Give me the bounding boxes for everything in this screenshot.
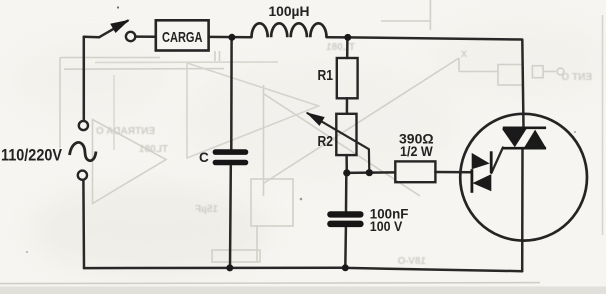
wire left rail top xyxy=(83,37,86,121)
faint vertical top right xyxy=(429,0,431,30)
svg-text:100 V: 100 V xyxy=(370,218,403,234)
svg-text:CARGA: CARGA xyxy=(162,29,203,46)
switch lever xyxy=(99,21,127,37)
faint box bottom center-left xyxy=(251,179,293,226)
switch arrowhead xyxy=(110,20,130,33)
R2 wiper arrowhead xyxy=(306,112,325,126)
faint line top-left long xyxy=(64,68,224,71)
svg-text:110/220V: 110/220V xyxy=(1,147,62,165)
faint vertical below CARGA xyxy=(214,51,216,61)
svg-text:R1: R1 xyxy=(318,67,334,84)
resistor 390 ohm xyxy=(395,161,435,182)
wire switch stub xyxy=(84,36,99,39)
wire 390 to diac xyxy=(435,171,470,174)
load box CARGA xyxy=(156,20,209,50)
svg-text:X: X xyxy=(461,49,467,59)
svg-text:ENTRADA O: ENTRADA O xyxy=(96,126,155,137)
wire 100nF lower xyxy=(344,227,347,268)
svg-text:ENT O: ENT O xyxy=(561,72,592,83)
svg-text:15µF: 15µF xyxy=(195,204,218,215)
diac D1 lower triangle xyxy=(473,174,492,191)
svg-text:C: C xyxy=(199,150,209,165)
faint left triangle xyxy=(93,120,167,204)
node junction below R2 xyxy=(343,169,350,176)
wire R2 wiper xyxy=(308,113,370,173)
diac D1 upper triangle xyxy=(472,153,490,169)
diac D1 left bar xyxy=(470,169,473,193)
wire R1 drop xyxy=(346,37,349,58)
wire top right run xyxy=(327,37,524,127)
source terminal lower xyxy=(78,171,87,180)
svg-text:18V-O: 18V-O xyxy=(397,256,426,267)
capacitor 100nF bottom plate xyxy=(330,221,360,228)
inductor L1 100uH xyxy=(252,23,327,37)
svg-text:TL081: TL081 xyxy=(139,144,168,155)
triac Q1 body circle xyxy=(460,114,587,241)
faint apex line to box xyxy=(458,58,460,72)
capacitor 100nF top plate xyxy=(330,211,360,217)
source terminal upper xyxy=(79,121,88,130)
wire triac bottom drop xyxy=(521,148,524,271)
potentiometer R2 xyxy=(336,114,356,155)
triac Q1 up triangle xyxy=(524,130,546,148)
svg-text:1/2 W: 1/2 W xyxy=(400,143,433,159)
wire diac gate diagonal xyxy=(492,148,503,173)
triac Q1 MT1 bar xyxy=(503,147,546,150)
svg-text:100µH: 100µH xyxy=(269,3,310,19)
faint right edge vertical xyxy=(602,15,604,235)
wire CARGA to inductor xyxy=(209,36,252,39)
faint vertical left xyxy=(59,58,61,149)
bottom gray band xyxy=(0,287,606,294)
capacitor C bottom plate xyxy=(215,160,245,166)
node junction after CARGA xyxy=(228,34,235,41)
diac D1 right bar xyxy=(490,151,493,173)
wire C branch lower xyxy=(229,165,232,268)
wire gate row xyxy=(347,171,396,174)
capacitor C top plate xyxy=(215,149,245,155)
node junction wiper xyxy=(366,169,373,176)
wire R2 bottom stub xyxy=(345,155,348,173)
triac Q1 down triangle xyxy=(502,129,527,147)
wire C branch upper xyxy=(230,37,233,149)
faint box top right xyxy=(498,65,523,86)
svg-text:TL081: TL081 xyxy=(326,42,355,53)
node junction bottom rail C xyxy=(226,264,233,271)
triac Q1 MT2 bar xyxy=(503,127,546,130)
node junction after inductor xyxy=(344,34,351,41)
faint left op-amp mirrored xyxy=(187,63,319,158)
svg-text:R2: R2 xyxy=(318,133,334,150)
resistor R1 xyxy=(337,58,358,98)
wire R1-R2 stub xyxy=(346,98,349,114)
faint mirrored texts xyxy=(96,42,592,267)
node junction bottom rail 100nF xyxy=(342,264,349,271)
faint small vertical center xyxy=(256,226,258,262)
faint center triangle diagonals xyxy=(264,58,459,183)
wire circle to CARGA xyxy=(135,35,155,38)
AC sine symbol xyxy=(70,142,97,160)
switch terminal xyxy=(126,32,135,41)
wire AC bottom drop xyxy=(82,180,85,268)
wire bottom rail xyxy=(84,268,522,271)
wire 100nF upper xyxy=(345,177,348,212)
